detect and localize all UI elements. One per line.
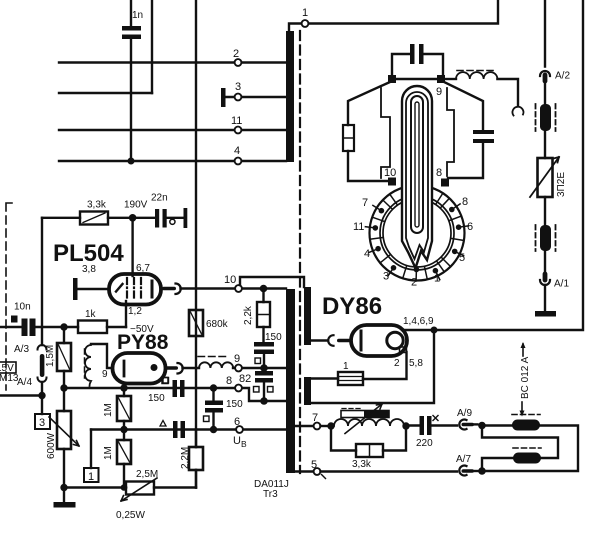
wire terminal 6 U_B [91,428,286,430]
capacitor 22n to chassis [136,193,187,229]
link bar A3-A4 [40,354,45,377]
PY88 grid lead pin 9 [91,344,113,380]
wire booster drop [311,330,434,403]
DY86 filament lead and socket [311,335,352,346]
ground [535,311,556,317]
svg-text:1: 1 [302,7,308,19]
node terminal 8 [226,373,251,391]
svg-text:A/4: A/4 [17,377,32,388]
width coil BC012A lower [513,448,541,464]
svg-text:150: 150 [265,332,282,343]
wire to linearity coil [321,425,332,427]
svg-text:9: 9 [234,353,240,365]
capacitor 220 [406,416,457,450]
ring tick marks [370,194,463,279]
varistor 3П2E [530,157,567,225]
svg-text:5: 5 [311,459,317,471]
marker square PY88 [162,378,168,384]
junction [38,392,45,399]
svg-text:1,4,6,9: 1,4,6,9 [403,316,434,327]
inductor L boost [198,357,233,369]
CRT top capacitor [392,44,443,75]
transformer core dashed [299,31,301,473]
CRT pad left [388,75,396,83]
node terminal 3 [235,81,242,100]
resistor 1,5M [45,327,71,388]
resistor 3,3k top [42,200,130,225]
node terminal 11 [231,115,242,133]
capacitor 150 lower [254,368,274,401]
svg-text:A/7: A/7 [456,454,471,465]
capacitor 1n [122,0,143,161]
svg-text:PY88: PY88 [117,331,169,354]
tube PY88 [113,353,166,384]
svg-text:BC 012 A: BC 012 A [520,356,531,399]
label BC012A with arrows [520,342,532,417]
width coil BC012A upper [512,415,540,431]
svg-text:600W: 600W [46,432,57,459]
wire terminal 10 [181,287,287,289]
svg-text:10: 10 [384,167,396,179]
svg-text:6: 6 [234,416,240,428]
DY86 pin 2 lead [363,352,407,379]
ring pin dots and leads [365,204,468,281]
svg-text:8: 8 [226,375,232,387]
junction [60,484,67,491]
svg-text:3Π2E: 3Π2E [556,172,567,197]
wire vertical bus center [195,0,197,488]
wire terminal 9 [183,367,287,369]
node terminal 9 [234,353,242,371]
marker square DY86 [400,347,407,353]
svg-text:3,3k: 3,3k [87,200,107,211]
svg-text:2,5M: 2,5M [136,469,158,480]
node terminal 10 [224,274,242,292]
svg-text:8: 8 [436,167,442,179]
svg-text:7: 7 [362,197,368,209]
wire to terminal 2 [59,61,286,63]
svg-text:3: 3 [235,81,241,93]
svg-text:2: 2 [233,48,239,60]
svg-text:10n: 10n [14,302,31,313]
junction [431,327,438,334]
svg-text:1,5M: 1,5M [45,345,56,367]
node terminal 7 [295,412,320,429]
svg-text:6,7: 6,7 [136,263,150,274]
tube DY86 [351,325,407,356]
svg-text:4: 4 [364,248,370,260]
wire A/2 drop [544,0,546,67]
choke with core lower right [536,225,556,273]
wire terminal 8 [64,388,286,401]
node terminal 5 [295,459,326,479]
svg-text:680k: 680k [206,319,229,330]
svg-text:1: 1 [343,361,349,372]
svg-text:Tr3: Tr3 [263,489,278,500]
svg-text:2: 2 [394,358,400,369]
connector A/3 [14,344,47,355]
svg-text:U: U [233,435,241,447]
svg-text:150: 150 [148,393,165,404]
potentiometer 2,5M [64,469,196,521]
CRT outer right path with capacitor [444,82,494,178]
wire middle branch [482,426,558,459]
terminal 3 end bar [221,88,226,107]
svg-text:A/2: A/2 [555,71,570,82]
connector A/7 [456,454,478,476]
capacitor 150 vertical [204,388,244,430]
svg-text:82: 82 [239,373,251,385]
svg-text:1k: 1k [85,309,97,320]
transformer Tr3 secondary bar lower [304,377,311,405]
CRT pad 8 [436,167,449,187]
svg-text:8: 8 [462,196,468,208]
CRT inner bracket left [381,88,390,178]
resistor 1 (DY86 fuse) [311,361,363,385]
wire to width coil [482,424,512,426]
capacitor 150 on cathode line [148,378,185,405]
PY88 anode dot [151,364,158,371]
wire to terminal 11 [59,129,286,131]
PL504 anode pin and socket [162,284,181,295]
tube PL504 [109,274,161,305]
junction [210,384,217,391]
CRT outer left path with resistor [343,82,390,181]
svg-text:1M: 1M [103,446,114,460]
capacitor 150 upper [254,332,282,366]
junction [402,422,409,429]
junction [120,426,127,433]
choke with core upper right [536,104,556,158]
wire pad link [392,78,441,80]
ring pin labels [353,196,473,289]
svg-text:5,8: 5,8 [409,358,423,369]
PL504 cathode [116,284,123,292]
PL504 anode top lead [133,218,151,276]
resistor 1k [64,309,126,333]
CRT neck envelope [402,86,432,268]
svg-text:11: 11 [353,221,364,233]
svg-text:220: 220 [416,438,433,449]
capacitor delta on U_B line [160,421,185,439]
connector box 3 [35,396,50,430]
connector A/4 [17,377,47,392]
svg-text:7: 7 [312,412,318,424]
dashed module boundary left [6,203,12,390]
capacitor 10n [0,302,64,337]
svg-text:B: B [241,439,247,449]
svg-text:150: 150 [226,399,243,410]
junction [120,384,127,391]
connector A/2 [540,71,570,105]
resistor 2,2M [180,430,203,488]
svg-text:5: 5 [459,252,465,264]
wire to terminal 3 [225,96,286,98]
svg-text:3,3k: 3,3k [352,459,372,470]
junction [60,384,67,391]
wire link to secondary [240,277,304,287]
resistor 1M lower [103,430,131,488]
svg-text:DY86: DY86 [322,293,382,320]
transformer Tr3 secondary bar upper [304,287,311,345]
svg-text:190V: 190V [124,200,148,211]
svg-text:A/3: A/3 [14,344,29,355]
wire to terminal 4 [59,160,286,162]
transformer Tr3 primary bar lower [286,289,295,473]
PY88 anode pin and socket [165,363,183,374]
junction [60,323,67,330]
potentiometer 600W [46,388,79,488]
svg-text:6: 6 [467,221,473,233]
svg-text:3: 3 [383,271,389,283]
CRT pad 9 [436,75,445,98]
connector box 1 [84,430,99,484]
svg-text:1n: 1n [132,10,143,21]
svg-text:0,25W: 0,25W [116,510,145,521]
svg-text:10: 10 [224,274,236,286]
wire A3 drop [41,218,43,345]
svg-text:3,8: 3,8 [82,264,96,275]
junction [210,426,217,433]
label transformer [254,479,289,500]
svg-text:1,2: 1,2 [128,306,142,317]
svg-text:1M: 1M [103,403,114,417]
junction [327,422,334,429]
CRT inner bracket right [447,88,454,176]
svg-text:A/9: A/9 [457,408,472,419]
node terminal 2 [233,48,241,66]
svg-text:2: 2 [411,277,417,289]
junction [478,467,486,475]
label 15V boxed [0,362,16,374]
junction [260,285,268,293]
svg-text:4: 4 [234,145,240,157]
wire coil to A7 node [482,458,513,467]
wire left entry [0,394,42,396]
junction [128,158,135,165]
connector A/1 [540,272,569,312]
wire upper second [59,92,152,94]
node terminal 6 [233,416,247,449]
transformer Tr3 primary bar upper [286,31,294,162]
node terminal 1 [289,0,498,31]
open socket hook top [512,107,523,116]
PL504 left pin 3,8 [73,264,109,300]
PL504 grid lead pins 1,2 [126,301,154,335]
svg-text:A/1: A/1 [554,279,569,290]
inductor heater coil top right [445,71,518,107]
PL504 anode bar [151,281,154,297]
svg-text:1: 1 [434,273,440,285]
svg-text:9: 9 [102,369,108,380]
junction [260,397,268,405]
svg-text:22n: 22n [151,193,168,204]
svg-text:PL504: PL504 [53,240,124,267]
CRT electron gun [411,96,423,233]
svg-text:9: 9 [436,86,442,98]
node terminal 4 [234,145,241,164]
resistor 3,3k damping [331,426,406,470]
ground bottom [54,488,76,508]
wire terminal 5 to A/7 [321,470,458,472]
svg-text:2,2k: 2,2k [243,305,254,325]
connector A/9 [457,408,478,430]
PY88 cathode bar [123,361,126,376]
CRT pad 10 [384,167,396,186]
PL504 grids [127,278,141,301]
resistor 1M upper [103,388,131,430]
CRT socket ring [370,186,465,281]
svg-text:M13: M13 [0,373,19,384]
junction [478,422,486,430]
resistor 680k [189,310,229,336]
wire loop right [486,426,578,472]
wire vertical bus left [151,0,153,93]
svg-text:1: 1 [88,471,94,483]
variable inductor linearity [334,404,404,434]
svg-text:2,2M: 2,2M [180,447,191,469]
svg-text:3: 3 [39,417,45,429]
resistor 2,2k [243,289,270,343]
svg-text:11: 11 [231,115,242,127]
wire right edge [402,0,583,330]
junction [260,364,268,372]
node 190V [124,200,148,222]
heater choke PY88 [85,345,92,386]
